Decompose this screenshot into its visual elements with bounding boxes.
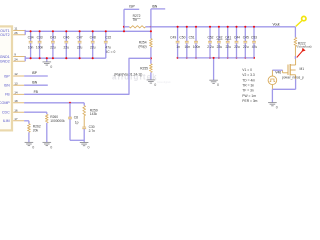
capacitor C43 bbox=[50, 30, 56, 59]
probe flag Vout bbox=[296, 16, 306, 26]
svg-text:IC = 0: IC = 0 bbox=[106, 50, 115, 54]
svg-text:22u: 22u bbox=[90, 45, 96, 49]
svg-text:0: 0 bbox=[50, 65, 52, 69]
capacitor C49 bbox=[170, 26, 180, 59]
svg-text:C33: C33 bbox=[37, 35, 43, 39]
svg-text:V46: V46 bbox=[275, 71, 281, 75]
resistor R254 bbox=[138, 39, 152, 49]
svg-text:100n: 100n bbox=[36, 45, 44, 49]
svg-text:22u: 22u bbox=[225, 45, 231, 49]
capacitor C50 bbox=[179, 26, 190, 59]
svg-text:0: 0 bbox=[276, 106, 278, 110]
svg-text:22u: 22u bbox=[234, 45, 240, 49]
capacitor C51 bbox=[189, 26, 201, 59]
resistor R262 bbox=[28, 121, 41, 133]
current probe marker bbox=[297, 48, 306, 58]
wire bank1 top rail bbox=[25, 30, 151, 32]
capacitor C22 bbox=[104, 30, 112, 58]
svg-text:COMP: COMP bbox=[0, 101, 10, 105]
capacitor C33 bbox=[36, 30, 44, 59]
svg-text:ILIM: ILIM bbox=[3, 119, 10, 123]
svg-text:143k: 143k bbox=[90, 112, 98, 116]
resistor R255 bbox=[114, 64, 152, 77]
wire bank1 bottom rail bbox=[25, 57, 106, 59]
svg-text:47u: 47u bbox=[252, 45, 258, 49]
capacitor C41 bbox=[225, 26, 231, 59]
ground V46 bbox=[268, 89, 278, 109]
svg-text:ISP: ISP bbox=[129, 5, 135, 9]
svg-text:14: 14 bbox=[14, 90, 18, 94]
ground R255 bbox=[147, 80, 157, 87]
svg-text:18: 18 bbox=[14, 99, 18, 103]
svg-text:26: 26 bbox=[14, 31, 18, 35]
IC pin names bbox=[0, 29, 10, 123]
watermark bbox=[112, 73, 171, 84]
capacitor C42 bbox=[216, 26, 222, 59]
wire COMP pin bbox=[24, 102, 84, 104]
label C22 IC=0 bbox=[106, 50, 115, 54]
wire bank2 top rail Vout bbox=[151, 26, 296, 28]
svg-text:C41: C41 bbox=[225, 35, 231, 39]
capacitor C47 bbox=[77, 30, 83, 59]
IC pin numbers bbox=[14, 27, 18, 121]
svg-text:22u: 22u bbox=[50, 45, 56, 49]
wire R254 to FB node bbox=[150, 47, 152, 64]
svg-text:9: 9 bbox=[14, 53, 16, 57]
wire Vout corner to R222 bbox=[294, 27, 296, 38]
svg-text:(Vout/Iout): (Vout/Iout) bbox=[297, 45, 311, 49]
svg-text:24: 24 bbox=[14, 57, 18, 61]
svg-text:0: 0 bbox=[88, 146, 90, 150]
wire V46 gate bbox=[272, 69, 282, 71]
svg-text:22u: 22u bbox=[217, 45, 223, 49]
svg-text:C47: C47 bbox=[77, 35, 83, 39]
svg-text:22u: 22u bbox=[64, 45, 70, 49]
svg-text:C52: C52 bbox=[207, 35, 213, 39]
wire GND join bbox=[24, 56, 26, 61]
svg-text:12: 12 bbox=[14, 72, 18, 76]
svg-text:C49: C49 bbox=[170, 35, 176, 39]
svg-text:7m: 7m bbox=[133, 18, 138, 22]
svg-text:(Rup/(Vout/1.24-1)): (Rup/(Vout/1.24-1)) bbox=[114, 73, 142, 77]
svg-text:22u: 22u bbox=[77, 45, 83, 49]
svg-text:ISP: ISP bbox=[4, 74, 10, 78]
svg-text:0: 0 bbox=[154, 83, 156, 87]
wire ISP stub bbox=[124, 5, 139, 10]
wire ILIM pin bbox=[24, 120, 29, 122]
svg-text:0: 0 bbox=[50, 145, 52, 149]
resistor R259 bbox=[83, 103, 98, 116]
svg-text:2.2u: 2.2u bbox=[207, 45, 214, 49]
svg-text:PER = 3m: PER = 3m bbox=[242, 99, 257, 103]
svg-text:C44: C44 bbox=[234, 35, 240, 39]
svg-text:www.digitek: www.digitek bbox=[157, 80, 171, 84]
svg-text:1n: 1n bbox=[176, 45, 180, 49]
svg-text:ISN: ISN bbox=[152, 4, 158, 8]
svg-text:C53: C53 bbox=[251, 35, 257, 39]
svg-text:1000000k: 1000000k bbox=[50, 119, 65, 123]
svg-text:M1: M1 bbox=[300, 67, 305, 71]
wire R222 lead down bbox=[294, 47, 296, 60]
svg-text:ISP: ISP bbox=[32, 71, 38, 75]
svg-text:V2 = 3.3: V2 = 3.3 bbox=[242, 73, 255, 77]
ground R262 bbox=[25, 142, 35, 149]
svg-text:TD = 4m: TD = 4m bbox=[242, 78, 255, 82]
svg-text:GND2: GND2 bbox=[0, 60, 10, 64]
svg-text:22u: 22u bbox=[243, 45, 249, 49]
label Vout bbox=[273, 23, 280, 27]
svg-text:(Rup): (Rup) bbox=[138, 44, 146, 48]
transistor M1 bbox=[282, 59, 304, 80]
svg-text:C50: C50 bbox=[179, 35, 185, 39]
ground R260 bbox=[43, 142, 53, 149]
svg-text:ISN: ISN bbox=[32, 80, 38, 84]
svg-text:100n: 100n bbox=[193, 45, 201, 49]
voltage source V46 bbox=[268, 70, 281, 89]
wire OUT join bbox=[24, 30, 26, 35]
capacitor C30 bbox=[82, 116, 95, 143]
capacitor C52 bbox=[207, 26, 214, 59]
svg-text:TF = 3n: TF = 3n bbox=[242, 89, 254, 93]
wire bank2 bottom rail bbox=[178, 57, 254, 59]
resistor R260 bbox=[45, 112, 65, 123]
svg-text:CDC: CDC bbox=[2, 111, 10, 115]
svg-text:FB: FB bbox=[5, 93, 10, 97]
label V46 parameters bbox=[242, 68, 257, 103]
svg-text:C42: C42 bbox=[216, 35, 222, 39]
wire R260 to ground bbox=[46, 123, 48, 142]
wire ISN pin bbox=[24, 80, 48, 85]
ground bank1 bbox=[43, 57, 53, 69]
svg-text:power_nmos_p: power_nmos_p bbox=[282, 76, 304, 80]
svg-text:C48: C48 bbox=[90, 35, 96, 39]
wire ISP pin bbox=[24, 71, 48, 76]
capacitor C34 bbox=[28, 30, 34, 59]
IC pin stubs bbox=[13, 31, 25, 121]
wire R272 left lead bbox=[124, 26, 129, 28]
svg-text:R255: R255 bbox=[140, 67, 148, 71]
ground C30/C8 bbox=[80, 143, 90, 150]
svg-text:10n: 10n bbox=[185, 45, 191, 49]
svg-text:13: 13 bbox=[14, 81, 18, 85]
resistor R272 bbox=[129, 14, 145, 28]
svg-text:2.7n: 2.7n bbox=[89, 129, 96, 133]
svg-text:C43: C43 bbox=[50, 35, 56, 39]
svg-text:V1 = 0: V1 = 0 bbox=[242, 68, 252, 72]
wire R272 right lead bbox=[146, 26, 152, 28]
capacitor C53 bbox=[251, 26, 257, 59]
svg-text:TR = 3n: TR = 3n bbox=[242, 84, 254, 88]
svg-text:Vout: Vout bbox=[273, 23, 280, 27]
ground bank2 bbox=[209, 57, 219, 87]
wire R255 to ground bbox=[150, 72, 152, 80]
capacitor C44 bbox=[234, 26, 240, 59]
wire ISN stub bbox=[151, 4, 165, 26]
svg-text:GND1: GND1 bbox=[0, 55, 10, 59]
wire CDC pin bbox=[24, 111, 47, 113]
svg-text:C8: C8 bbox=[74, 116, 78, 120]
svg-text:C22: C22 bbox=[105, 35, 111, 39]
svg-text:C45: C45 bbox=[243, 35, 249, 39]
svg-text:0: 0 bbox=[217, 83, 219, 87]
capacitor C45 bbox=[243, 26, 249, 59]
node ISP tap bbox=[123, 9, 125, 32]
svg-text:0: 0 bbox=[32, 145, 34, 149]
svg-text:1p: 1p bbox=[75, 120, 79, 124]
capacitor C8 bbox=[68, 103, 79, 141]
svg-text:16: 16 bbox=[14, 108, 18, 112]
wire rail end to R254 bbox=[150, 27, 152, 39]
wire R262 to ground bbox=[28, 132, 30, 142]
capacitor C48 bbox=[90, 30, 96, 59]
svg-text:C46: C46 bbox=[63, 35, 69, 39]
resistor R222 bbox=[294, 38, 312, 49]
svg-text:C51: C51 bbox=[189, 35, 195, 39]
svg-text:10n: 10n bbox=[28, 45, 34, 49]
svg-text:C34: C34 bbox=[28, 35, 34, 39]
wire source return bbox=[272, 79, 295, 89]
svg-text:OUT2: OUT2 bbox=[0, 33, 10, 37]
svg-text:17: 17 bbox=[14, 117, 18, 121]
svg-text:47u: 47u bbox=[105, 45, 111, 49]
label FB net bbox=[34, 90, 39, 94]
svg-text:ISN: ISN bbox=[4, 84, 10, 88]
wire C8 to ground joint bbox=[70, 139, 84, 141]
capacitor C46 bbox=[63, 30, 69, 59]
svg-text:PW = 1m: PW = 1m bbox=[242, 94, 256, 98]
wire FB link bbox=[24, 58, 151, 94]
svg-text:20k: 20k bbox=[33, 128, 39, 132]
IC U1 box bbox=[0, 26, 12, 130]
